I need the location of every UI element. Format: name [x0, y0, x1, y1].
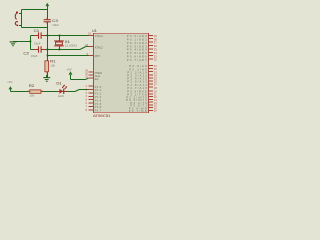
svg-text:19: 19 [88, 32, 91, 36]
svg-text:37: 37 [154, 41, 157, 45]
svg-text:U1: U1 [92, 29, 97, 33]
svg-text:11.0592: 11.0592 [65, 44, 78, 48]
svg-text:18: 18 [85, 43, 88, 47]
svg-text:32: 32 [154, 58, 157, 62]
svg-text:10k: 10k [29, 94, 34, 98]
svg-text:AT89C51: AT89C51 [93, 114, 111, 118]
svg-text:C2: C2 [23, 52, 29, 56]
svg-text:P3.7/RD: P3.7/RD [129, 109, 147, 113]
svg-text:+5V: +5V [7, 80, 13, 84]
svg-text:LED: LED [58, 94, 64, 98]
svg-text:P1.7: P1.7 [95, 109, 102, 113]
svg-text:33pF: 33pF [34, 41, 41, 45]
svg-text:XTAL1: XTAL1 [95, 34, 104, 38]
svg-text:33pF: 33pF [31, 54, 38, 58]
svg-text:38: 38 [154, 37, 157, 41]
svg-text:D1: D1 [56, 82, 62, 86]
svg-text:17: 17 [154, 109, 157, 113]
svg-text:RST: RST [95, 54, 101, 58]
svg-text:39: 39 [154, 34, 157, 38]
svg-text:XTAL2: XTAL2 [95, 45, 104, 49]
svg-text:31: 31 [85, 75, 88, 79]
svg-text:EA: EA [95, 77, 99, 81]
svg-text:36: 36 [154, 44, 157, 48]
svg-text:10uF: 10uF [52, 23, 59, 27]
svg-text:28: 28 [154, 86, 157, 90]
svg-text:+5V: +5V [66, 68, 72, 72]
svg-text:C1: C1 [34, 29, 40, 33]
svg-text:33: 33 [154, 54, 157, 58]
svg-text:R2: R2 [29, 84, 35, 88]
svg-text:10k: 10k [50, 63, 55, 67]
svg-text:34: 34 [154, 51, 157, 55]
svg-text:35: 35 [154, 48, 157, 52]
